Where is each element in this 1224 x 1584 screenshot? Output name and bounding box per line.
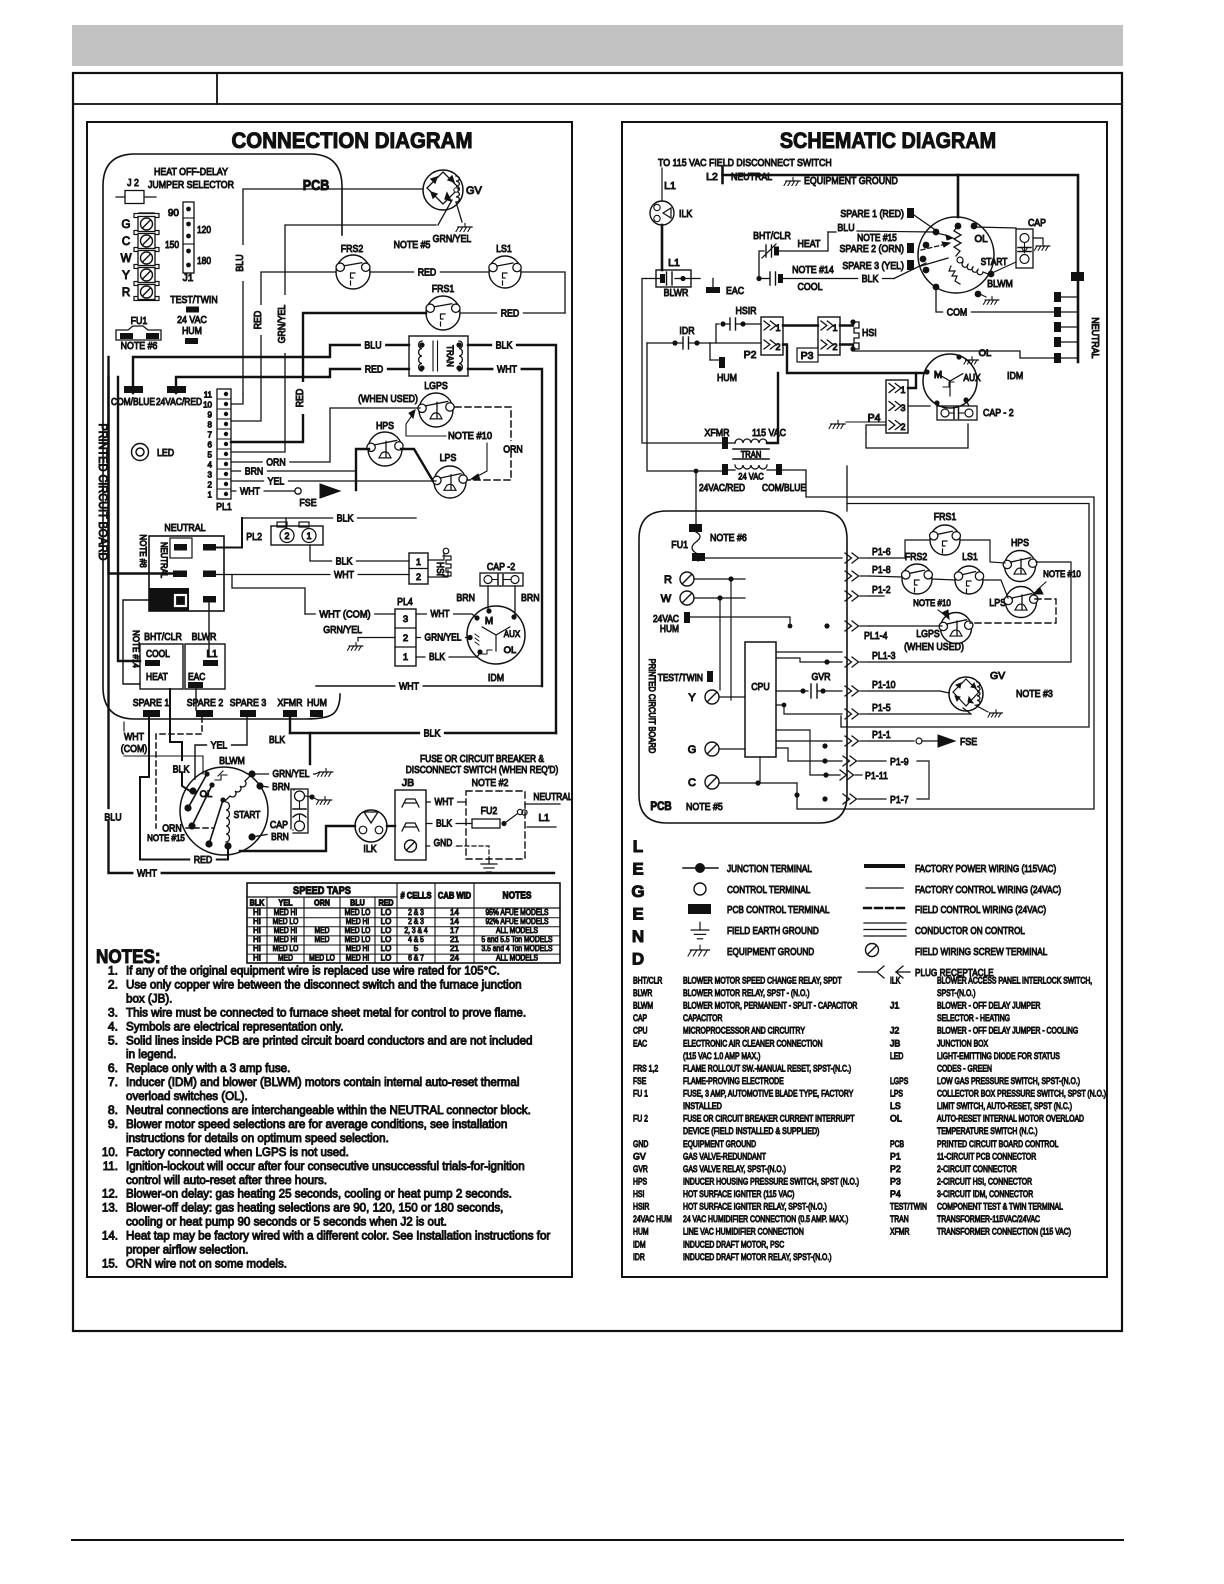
svg-text:SPARE 1: SPARE 1 xyxy=(133,697,170,709)
wire ORN from PL1 pin4 to LGPS xyxy=(231,408,420,468)
svg-text:BLU: BLU xyxy=(234,254,246,271)
svg-text:12.: 12. xyxy=(102,1187,118,1201)
svg-text:FRS1: FRS1 xyxy=(432,283,455,295)
gas valve GV (schematic) xyxy=(949,670,1053,711)
legend: factory control wiring xyxy=(866,884,1061,896)
svg-text:BLK: BLK xyxy=(496,339,513,351)
svg-text:HI: HI xyxy=(253,917,261,926)
relay BHT/CLR box xyxy=(140,631,183,689)
svg-text:PRINTED CIRCUIT BOARD CONTROL: PRINTED CIRCUIT BOARD CONTROL xyxy=(937,1139,1059,1149)
svg-text:HUM: HUM xyxy=(660,624,679,635)
svg-text:EAC: EAC xyxy=(726,285,744,297)
wire GRN/YEL + earth to PL4-2 xyxy=(323,624,395,650)
svg-text:If any of the original equipme: If any of the original equipment wire is… xyxy=(126,964,500,978)
svg-text:BLK: BLK xyxy=(173,763,190,775)
svg-text:PCB: PCB xyxy=(890,1139,904,1149)
svg-text:MED: MED xyxy=(315,926,330,935)
svg-text:1: 1 xyxy=(208,491,213,500)
svg-text:LPS: LPS xyxy=(989,597,1006,609)
svg-text:Symbols are electrical represe: Symbols are electrical representation on… xyxy=(126,1019,344,1033)
svg-text:ILK: ILK xyxy=(890,976,900,986)
svg-text:BLU: BLU xyxy=(350,898,365,908)
svg-text:NEUTRAL: NEUTRAL xyxy=(533,792,573,803)
svg-text:J 2: J 2 xyxy=(127,177,139,189)
svg-text:Ignition-lockout will occur af: Ignition-lockout will occur after four c… xyxy=(126,1159,525,1173)
svg-text:overload switches (OL).: overload switches (OL). xyxy=(126,1089,248,1103)
legend: conductor on control xyxy=(864,923,1025,937)
svg-text:ORN: ORN xyxy=(266,456,286,468)
svg-text:24VAC/RED: 24VAC/RED xyxy=(699,483,745,494)
svg-text:XFMR: XFMR xyxy=(890,1227,909,1237)
wire BLK from TRAN xyxy=(468,337,556,733)
screw terminal G xyxy=(688,742,719,756)
legend: factory power wiring xyxy=(866,863,1056,875)
low gas pressure switch LGPS xyxy=(418,380,454,427)
svg-text:HPS: HPS xyxy=(1011,537,1029,549)
wire BRN to CAP top xyxy=(260,780,294,794)
blower motor BLWM xyxy=(180,755,268,855)
svg-text:NOTE #14: NOTE #14 xyxy=(792,264,834,276)
svg-text:LIGHT-EMITTING DIODE FOR STATU: LIGHT-EMITTING DIODE FOR STATUS xyxy=(937,1051,1060,1061)
svg-text:HUM: HUM xyxy=(307,697,327,709)
svg-text:Blower-on delay: gas heating 2: Blower-on delay: gas heating 25 seconds,… xyxy=(126,1187,512,1201)
svg-text:NOTE #6: NOTE #6 xyxy=(710,532,747,544)
NOTE #10 + arrow (HPS/LPS) xyxy=(1033,569,1081,594)
svg-text:ORN wire not on some models.: ORN wire not on some models. xyxy=(126,1256,287,1270)
svg-text:BRN: BRN xyxy=(271,832,289,843)
svg-text:FLAME-PROVING ELECTRODE: FLAME-PROVING ELECTRODE xyxy=(683,1076,784,1086)
svg-text:P4: P4 xyxy=(890,1189,901,1199)
svg-text:instructions for details on op: instructions for details on optimum spee… xyxy=(126,1131,389,1145)
legend: control terminal xyxy=(694,883,810,896)
svg-text:JB: JB xyxy=(890,1038,900,1048)
svg-text:W: W xyxy=(121,253,132,265)
transformer TRAN (schematic) xyxy=(699,427,806,494)
wire neutral top rect to BLK xyxy=(216,518,242,548)
thermostat terminal block G C W Y R xyxy=(121,213,159,301)
svg-text:BLK: BLK xyxy=(429,652,445,663)
wire WHT to HSI-2 xyxy=(216,567,409,581)
svg-text:FSE: FSE xyxy=(633,1076,646,1086)
relay IDR xyxy=(647,325,761,349)
legend: equipment ground xyxy=(688,945,815,958)
svg-text:NEUTRAL: NEUTRAL xyxy=(1089,317,1101,358)
svg-text:MED: MED xyxy=(278,953,293,962)
svg-text:M: M xyxy=(934,370,942,381)
svg-text:PCB CONTROL TERMINAL: PCB CONTROL TERMINAL xyxy=(727,904,830,916)
wire RED thick vertical (FRS1 power) xyxy=(231,313,426,442)
svg-text:INDUCER HOUSING PRESSURE SWITC: INDUCER HOUSING PRESSURE SWITCH, SPST (N… xyxy=(683,1176,859,1186)
svg-text:IDR: IDR xyxy=(679,325,695,337)
svg-text:GV: GV xyxy=(466,185,483,197)
svg-text:ILK: ILK xyxy=(363,843,376,855)
svg-text:2: 2 xyxy=(403,633,408,644)
svg-text:C: C xyxy=(122,236,130,248)
svg-text:GAS VALVE-REDUNDANT: GAS VALVE-REDUNDANT xyxy=(683,1151,766,1161)
svg-text:Replace only with a 3 amp fuse: Replace only with a 3 amp fuse. xyxy=(126,1061,290,1075)
svg-text:MED HI: MED HI xyxy=(274,908,298,917)
svg-text:LO: LO xyxy=(381,908,392,917)
svg-text:GRN/YEL: GRN/YEL xyxy=(425,633,462,644)
wire 24VAC/RED down to FU1 xyxy=(695,471,697,528)
wire FRS1 to HPS xyxy=(960,540,1005,563)
FSE electrode (schematic) xyxy=(869,735,977,748)
svg-text:2-CIRCUIT HSI, CONNECTOR: 2-CIRCUIT HSI, CONNECTOR xyxy=(937,1176,1032,1186)
svg-text:WHT: WHT xyxy=(334,569,355,581)
svg-text:COOL: COOL xyxy=(798,281,823,293)
NOTE #10 arrow to LPS xyxy=(471,443,487,480)
svg-text:90: 90 xyxy=(168,208,180,219)
svg-text:2: 2 xyxy=(416,572,421,582)
svg-text:SPST-(N.O.): SPST-(N.O.) xyxy=(937,988,976,998)
svg-text:1: 1 xyxy=(416,557,421,567)
svg-text:BRN: BRN xyxy=(245,465,264,477)
svg-text:HEAT OFF-DELAY: HEAT OFF-DELAY xyxy=(154,166,228,178)
svg-text:RED: RED xyxy=(252,310,264,329)
fuse FU1 (schematic) xyxy=(671,524,747,561)
svg-text:FUSE OR CIRCUIT BREAKER CURREN: FUSE OR CIRCUIT BREAKER CURRENT INTERRUP… xyxy=(683,1114,855,1124)
gas valve GV xyxy=(423,170,483,210)
svg-text:21: 21 xyxy=(450,935,459,944)
wire HUM row xyxy=(690,617,790,626)
svg-text:COLLECTOR BOX PRESSURE SWITCH,: COLLECTOR BOX PRESSURE SWITCH, SPST (N.O… xyxy=(937,1089,1106,1099)
pressure switch LGPS (schematic) xyxy=(904,613,973,654)
svg-text:NOTE #10: NOTE #10 xyxy=(913,598,951,609)
svg-text:CAP: CAP xyxy=(270,819,288,831)
svg-text:1: 1 xyxy=(403,652,408,663)
svg-text:HOT SURFACE IGNITER RELAY, SPS: HOT SURFACE IGNITER RELAY, SPST-(N.O.) xyxy=(683,1202,827,1212)
connector PL1 xyxy=(203,389,232,513)
svg-text:1: 1 xyxy=(832,323,837,333)
svg-text:P1-6: P1-6 xyxy=(872,546,891,558)
CAP ground xyxy=(1033,238,1050,250)
wire GRN/YEL PL4-2 to IDM xyxy=(416,630,473,644)
svg-text:LS1: LS1 xyxy=(496,243,512,255)
svg-text:180: 180 xyxy=(197,256,211,267)
svg-text:MED LO: MED LO xyxy=(345,935,371,944)
svg-text:YEL: YEL xyxy=(268,475,285,487)
svg-text:15.: 15. xyxy=(102,1256,118,1270)
svg-text:SPARE 2 (ORN): SPARE 2 (ORN) xyxy=(840,243,905,255)
PCB outline (schematic) xyxy=(639,470,847,795)
svg-text:J1: J1 xyxy=(183,273,194,284)
wire RED FRS2-LS1 xyxy=(370,264,489,278)
svg-text:2: 2 xyxy=(832,342,837,352)
wire BLWM to neutral bus xyxy=(957,175,960,217)
wire COM xyxy=(936,286,1054,318)
svg-text:SELECTOR - HEATING: SELECTOR - HEATING xyxy=(937,1013,1010,1023)
svg-text:NOTE #3: NOTE #3 xyxy=(1016,688,1053,700)
svg-text:LO: LO xyxy=(381,953,392,962)
svg-text:NOTE #15: NOTE #15 xyxy=(147,833,185,844)
svg-text:FU 1: FU 1 xyxy=(633,1089,648,1099)
svg-text:G: G xyxy=(688,744,697,756)
svg-text:AUX: AUX xyxy=(963,373,981,384)
wire HPS-LPS xyxy=(401,449,433,481)
svg-text:BHT/CLR: BHT/CLR xyxy=(633,976,662,986)
svg-text:EQUIPMENT GROUND: EQUIPMENT GROUND xyxy=(804,175,898,187)
svg-text:GND: GND xyxy=(633,1139,648,1149)
svg-text:MED LO: MED LO xyxy=(345,926,371,935)
svg-text:PRINTED CIRCUIT BOARD: PRINTED CIRCUIT BOARD xyxy=(96,424,108,561)
wire COM/BLUE neutral feed xyxy=(109,357,174,574)
relay BHT/CLR (schematic) xyxy=(753,230,828,279)
NEUTRAL connector block xyxy=(149,522,224,611)
svg-text:P1-7: P1-7 xyxy=(890,794,909,806)
svg-text:box (JB).: box (JB). xyxy=(126,991,172,1005)
svg-text:3: 3 xyxy=(403,614,408,625)
SPARE 2 (ORN) terminal xyxy=(840,243,915,255)
svg-text:LED: LED xyxy=(890,1051,903,1061)
contact COOL xyxy=(759,264,894,293)
svg-text:LIMIT SWITCH, AUTO-RESET, SPST: LIMIT SWITCH, AUTO-RESET, SPST (N.C.) xyxy=(937,1101,1072,1111)
svg-text:MED HI: MED HI xyxy=(274,935,298,944)
relay L1/BLWR box xyxy=(646,257,700,299)
svg-text:Neutral connections are interc: Neutral connections are interchangeable … xyxy=(126,1103,531,1117)
wire BLU stub to PL1 pin 10 xyxy=(231,394,243,404)
svg-text:CAB WID: CAB WID xyxy=(438,891,472,901)
svg-text:3: 3 xyxy=(900,403,905,413)
wire TRAN primary right up xyxy=(767,373,778,443)
wire HSI to bus xyxy=(859,349,1054,358)
svg-text:9.: 9. xyxy=(108,1117,118,1131)
svg-text:CONNECTION DIAGRAM: CONNECTION DIAGRAM xyxy=(232,128,473,153)
svg-text:START: START xyxy=(234,810,261,821)
svg-text:INSTALLED: INSTALLED xyxy=(683,1101,722,1111)
svg-text:24 VAC HUMIDIFIER CONNECTION (: 24 VAC HUMIDIFIER CONNECTION (0.5 AMP. M… xyxy=(683,1214,848,1224)
svg-text:PL1: PL1 xyxy=(216,501,232,513)
svg-text:FUSE, 3 AMP, AUTOMOTIVE BLADE: FUSE, 3 AMP, AUTOMOTIVE BLADE TYPE, FACT… xyxy=(683,1089,853,1099)
legend: junction terminal xyxy=(683,863,812,875)
wire P1-9 to P1-7 xyxy=(917,761,929,799)
svg-text:FACTORY CONTROL WIRING (24VAC): FACTORY CONTROL WIRING (24VAC) xyxy=(915,884,1061,896)
wire BLK JB to FU2 xyxy=(426,816,472,830)
FSE arrow xyxy=(299,484,340,509)
svg-text:MICROPROCESSOR AND CIRCUITRY: MICROPROCESSOR AND CIRCUITRY xyxy=(683,1026,805,1036)
svg-text:Inducer (IDM) and blower (BLWM: Inducer (IDM) and blower (BLWM) motors c… xyxy=(126,1075,519,1089)
svg-text:WHT: WHT xyxy=(399,680,420,692)
svg-text:LO: LO xyxy=(381,935,392,944)
wire WHT COM from neutral block xyxy=(232,575,305,615)
svg-text:P3: P3 xyxy=(801,350,814,362)
svg-text:COOL: COOL xyxy=(146,649,170,660)
wire BLK PL2 top xyxy=(242,510,416,528)
svg-text:14: 14 xyxy=(450,908,459,917)
wire GRN/YEL + ground (BLWM) xyxy=(252,767,333,781)
wire RED vertical (FRS2) xyxy=(231,272,336,421)
svg-text:HSIR: HSIR xyxy=(633,1202,649,1212)
SPARE 1 (RED) terminal xyxy=(840,208,914,220)
svg-text:FUSE OR CIRCUIT BREAKER &: FUSE OR CIRCUIT BREAKER & xyxy=(420,754,544,765)
svg-text:TEST/TWIN: TEST/TWIN xyxy=(170,294,218,306)
svg-text:Y: Y xyxy=(122,270,130,282)
title block row xyxy=(73,73,1122,104)
svg-text:5: 5 xyxy=(414,944,419,953)
svg-text:RED: RED xyxy=(418,266,437,278)
svg-text:24 VAC: 24 VAC xyxy=(738,472,764,482)
wire P1-5 xyxy=(869,713,971,715)
svg-text:NOTE #5: NOTE #5 xyxy=(394,239,431,251)
svg-text:GND: GND xyxy=(434,838,453,849)
flame rollout switch FRS2 xyxy=(336,243,370,289)
SPARE 3 terminal xyxy=(230,697,267,717)
junction box JB xyxy=(395,777,426,860)
CAP grounds xyxy=(305,794,332,804)
svg-text:LPS: LPS xyxy=(440,452,457,464)
svg-text:(115 VAC 1.0 AMP MAX.): (115 VAC 1.0 AMP MAX.) xyxy=(683,1051,760,1061)
svg-text:MED LO: MED LO xyxy=(273,944,299,953)
svg-text:JUNCTION TERMINAL: JUNCTION TERMINAL xyxy=(727,863,812,875)
svg-text:Solid lines inside PCB are pri: Solid lines inside PCB are printed circu… xyxy=(126,1033,533,1047)
svg-text:LGPS: LGPS xyxy=(890,1076,908,1086)
svg-text:BLWR: BLWR xyxy=(633,988,652,998)
wire P4-3 loop xyxy=(908,405,930,407)
blower motor BLWM (schematic) xyxy=(857,215,1016,304)
svg-text:CODES - GREEN: CODES - GREEN xyxy=(937,1063,992,1073)
svg-text:JUMPER SELECTOR: JUMPER SELECTOR xyxy=(148,179,234,191)
svg-text:3-CIRCUIT IDM, CONNECTOR: 3-CIRCUIT IDM, CONNECTOR xyxy=(937,1189,1033,1199)
svg-text:NEUTRAL: NEUTRAL xyxy=(164,522,205,534)
dashed LPS-LGPS (schematic) xyxy=(970,599,1056,623)
svg-text:EQUIPMENT GROUND: EQUIPMENT GROUND xyxy=(727,946,815,958)
svg-text:LOW GAS PRESSURE SWITCH, SPST-: LOW GAS PRESSURE SWITCH, SPST-(N.O.) xyxy=(937,1076,1080,1086)
svg-text:BLWR: BLWR xyxy=(664,287,689,299)
flame rollout switch FRS1 xyxy=(426,283,460,330)
svg-text:J1: J1 xyxy=(890,1001,899,1011)
svg-text:L1: L1 xyxy=(668,257,680,269)
svg-text:PCB: PCB xyxy=(650,799,672,813)
wire loop below P4 xyxy=(866,424,968,448)
svg-text:1.: 1. xyxy=(108,964,118,978)
svg-text:NOTE #8: NOTE #8 xyxy=(137,534,148,567)
SPARE 1 terminal xyxy=(133,697,170,717)
svg-text:Y: Y xyxy=(688,692,696,704)
svg-text:BLOWER ACCESS PANEL INTERLOCK: BLOWER ACCESS PANEL INTERLOCK SWITCH, xyxy=(937,976,1092,986)
wire BLW to HEAT xyxy=(123,600,149,684)
svg-text:MED LO: MED LO xyxy=(309,953,335,962)
svg-text:OL: OL xyxy=(974,234,988,245)
svg-text:Blower-off delay: gas heating: Blower-off delay: gas heating selections… xyxy=(126,1201,503,1215)
svg-text:P1-1: P1-1 xyxy=(872,729,891,741)
svg-text:FRS 1,2: FRS 1,2 xyxy=(633,1063,658,1073)
svg-text:SPARE 3: SPARE 3 xyxy=(230,697,267,709)
svg-text:CAP: CAP xyxy=(1028,217,1046,229)
svg-text:BLK: BLK xyxy=(269,735,285,746)
svg-text:14.: 14. xyxy=(102,1229,118,1243)
svg-text:GV: GV xyxy=(633,1151,646,1161)
svg-text:LS: LS xyxy=(890,1101,901,1111)
svg-text:BLW: BLW xyxy=(154,591,164,609)
svg-text:MED HI: MED HI xyxy=(346,917,370,926)
svg-text:2-CIRCUIT CONNECTOR: 2-CIRCUIT CONNECTOR xyxy=(937,1164,1017,1174)
svg-text:SPEED TAPS: SPEED TAPS xyxy=(293,885,351,897)
svg-text:J2: J2 xyxy=(890,1026,899,1036)
vertical feed bus in pcb xyxy=(841,511,843,800)
svg-text:(WHEN USED): (WHEN USED) xyxy=(358,393,418,405)
svg-text:BLK: BLK xyxy=(436,819,452,830)
svg-text:IDM: IDM xyxy=(633,1239,646,1249)
svg-text:PL2: PL2 xyxy=(246,531,262,543)
earth ground below FU2 box xyxy=(488,857,490,864)
svg-text:Factory connected when LGPS is: Factory connected when LGPS is not used. xyxy=(126,1145,349,1159)
wire left verticals from L1 xyxy=(642,279,723,444)
wire P2-2 to IDM xyxy=(783,345,924,374)
gray header bar xyxy=(72,25,1123,66)
svg-text:DISCONNECT SWITCH (WHEN REQ'D): DISCONNECT SWITCH (WHEN REQ'D) xyxy=(406,765,559,776)
svg-text:TRANSFORMER-115VAC/24VAC: TRANSFORMER-115VAC/24VAC xyxy=(937,1214,1041,1224)
svg-text:BLK: BLK xyxy=(424,727,441,739)
legend abbreviation list right xyxy=(890,976,1106,1237)
wire SPARE1 to RED xyxy=(140,717,228,866)
svg-text:BLWM: BLWM xyxy=(987,278,1013,290)
svg-text:BRN: BRN xyxy=(456,592,475,604)
wire WHT (COM) to PL4 xyxy=(305,606,395,620)
svg-text:AUTO-RESET INTERNAL MOTOR OVER: AUTO-RESET INTERNAL MOTOR OVERLOAD xyxy=(937,1114,1084,1124)
equipment ground legend (top) xyxy=(784,175,898,187)
wire BLK to HSI-1 xyxy=(310,545,409,567)
wire RED to TRAN xyxy=(176,361,409,393)
wire GRN/YEL vertical xyxy=(231,225,436,452)
speed taps table xyxy=(247,883,560,963)
wire XFMR to BLK line xyxy=(266,717,290,746)
svg-text:L: L xyxy=(633,837,643,856)
svg-text:PL4: PL4 xyxy=(397,596,413,608)
LED indicator xyxy=(132,444,175,461)
wire BLK line to BLWM xyxy=(309,733,311,764)
wire P1-8 to FRS2 xyxy=(869,576,902,577)
wire WHT mid right xyxy=(316,678,542,692)
svg-text:C: C xyxy=(688,777,696,789)
svg-text:NOTE #2: NOTE #2 xyxy=(472,777,509,789)
svg-text:EQUIPMENT GROUND: EQUIPMENT GROUND xyxy=(683,1139,756,1149)
svg-text:in legend.: in legend. xyxy=(126,1047,176,1061)
svg-text:6 & 7: 6 & 7 xyxy=(408,953,424,962)
svg-text:24: 24 xyxy=(450,953,459,962)
wire BLU + NOTE15 (schematic) xyxy=(828,222,897,244)
wire FRS2-LS1 xyxy=(932,579,955,580)
svg-text:CAP: CAP xyxy=(633,1013,647,1023)
svg-text:COM: COM xyxy=(947,306,968,318)
svg-text:CAP -2: CAP -2 xyxy=(487,561,515,573)
svg-text:PRINTED CIRCUIT BOARD: PRINTED CIRCUIT BOARD xyxy=(647,659,657,754)
svg-text:ALL MODELS: ALL MODELS xyxy=(496,953,538,962)
svg-text:24VAC/RED: 24VAC/RED xyxy=(156,397,202,408)
svg-text:HI: HI xyxy=(253,935,261,944)
svg-text:LPS: LPS xyxy=(890,1089,903,1099)
svg-text:95% AFUE MODELS: 95% AFUE MODELS xyxy=(485,908,548,917)
svg-text:BRN: BRN xyxy=(272,782,290,793)
svg-text:1: 1 xyxy=(306,531,311,541)
induced draft motor IDM (left) xyxy=(467,606,525,684)
wire BLK PL4-1 to IDM xyxy=(416,650,480,664)
svg-text:FACTORY POWER WIRING (115VAC): FACTORY POWER WIRING (115VAC) xyxy=(915,863,1056,875)
equipment ground IDM xyxy=(966,359,979,361)
wire P4-1 to IDM xyxy=(908,373,916,388)
wire LGPS to PL1-4 xyxy=(869,625,942,627)
CPU box xyxy=(745,642,776,757)
wire HPS left xyxy=(356,449,369,490)
capacitor CAP-2 (left) xyxy=(480,561,523,586)
wire LS1 right down xyxy=(521,272,565,313)
svg-text:TO 115 VAC FIELD DISCONNECT SW: TO 115 VAC FIELD DISCONNECT SWITCH xyxy=(658,157,832,169)
svg-text:11.: 11. xyxy=(103,1159,118,1173)
svg-text:TRANSFORMER CONNECTION (115 VA: TRANSFORMER CONNECTION (115 VAC) xyxy=(937,1227,1071,1237)
svg-text:IDR: IDR xyxy=(633,1252,645,1262)
svg-text:L1: L1 xyxy=(538,813,550,824)
svg-text:P1: P1 xyxy=(890,1151,901,1161)
interlock ILK (schematic) xyxy=(650,201,692,225)
svg-text:P1-10: P1-10 xyxy=(872,679,896,691)
